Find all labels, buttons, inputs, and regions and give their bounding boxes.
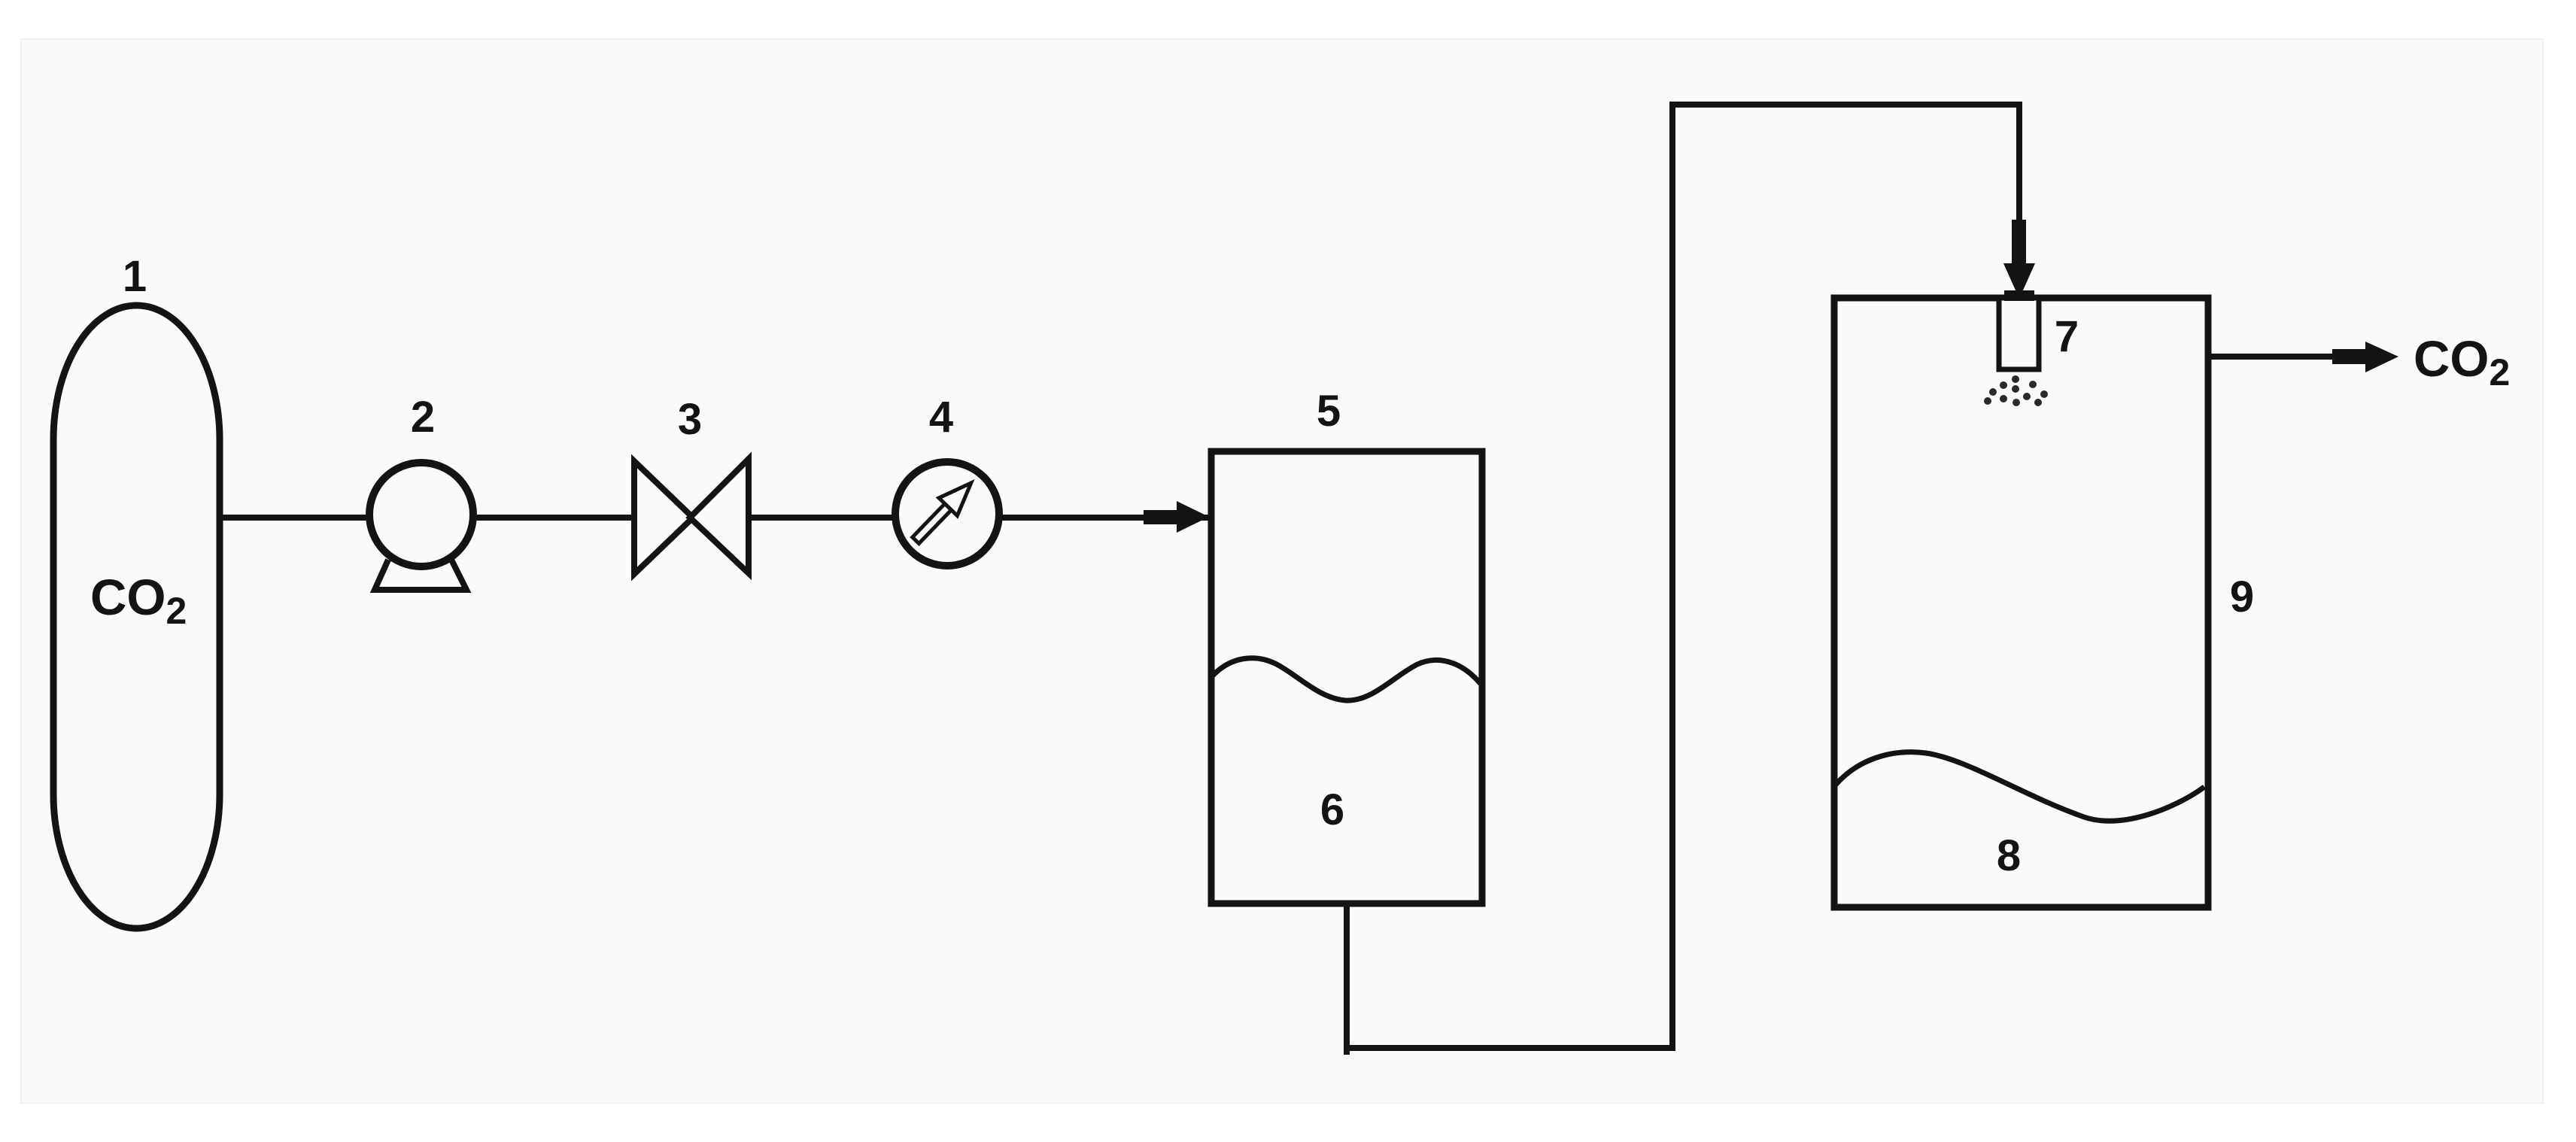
wire: main horizontal flow line from cylinder to vessel 5 [215,515,1208,521]
svg-text:1: 1 [123,252,147,301]
wire: CO2 outlet line [2209,354,2336,360]
valve 3 [634,461,693,574]
gauge 4 needle [907,474,980,549]
vessel 5 [1211,451,1482,904]
wire: recirculation pipe from vessel 5 bottom up over to vessel 9 [1347,105,2019,1048]
svg-text:5: 5 [1317,387,1341,436]
liquid wave in vessel 5 [1213,658,1481,700]
pump 2 body [369,463,473,566]
pump 2 base [375,560,466,590]
svg-text:8: 8 [1997,831,2021,880]
svg-text:2: 2 [411,393,435,442]
svg-text:9: 9 [2230,573,2254,621]
liquid wave in vessel 9 [1836,752,2204,822]
svg-text:4: 4 [929,393,953,442]
spray droplets below nozzle 7 [1984,375,2048,406]
svg-text:3: 3 [678,395,702,444]
svg-text:6: 6 [1320,785,1344,834]
arrow CO2 out [2332,349,2367,364]
cylinder 1 (CO2 tank) [53,305,220,928]
arrow down into vessel 9 [2012,220,2026,265]
gauge 4 [895,462,999,566]
arrow into vessel 5 [1144,510,1178,524]
wire joint stub at pipe corner [1344,1048,1350,1055]
svg-text:7: 7 [2055,312,2079,361]
nozzle 7 [1999,298,2039,369]
vessel 9 [1834,298,2208,907]
